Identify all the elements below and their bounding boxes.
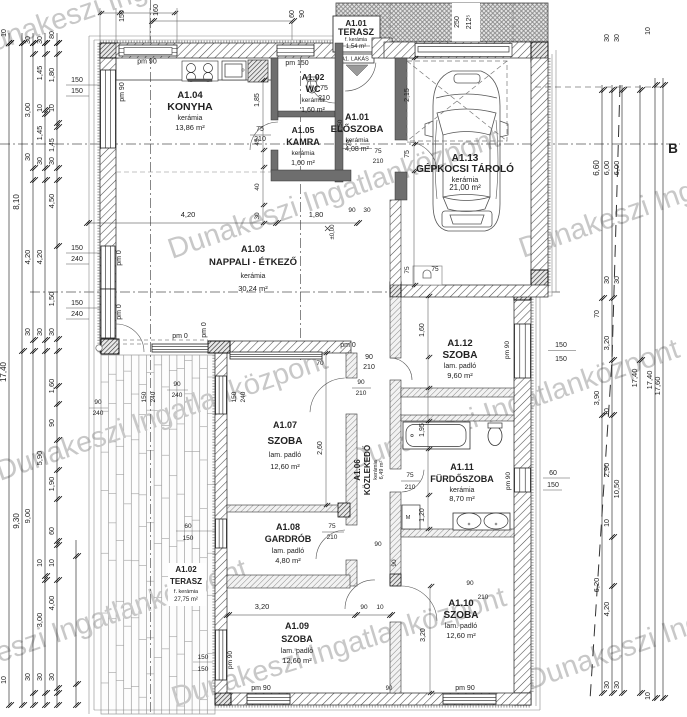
svg-text:210: 210 [373,158,384,165]
svg-text:90: 90 [365,354,373,361]
svg-text:30: 30 [49,328,56,336]
svg-text:A1.05: A1.05 [292,125,315,135]
svg-text:90: 90 [386,686,393,692]
svg-text:A1. LAKÁS: A1. LAKÁS [341,56,369,63]
svg-text:10: 10 [604,408,611,416]
svg-text:4,20: 4,20 [602,602,611,617]
svg-text:12,60 m²: 12,60 m² [446,631,476,640]
svg-text:f. kerámia: f. kerámia [345,37,367,43]
svg-text:SZOBA: SZOBA [443,350,478,361]
svg-text:10: 10 [49,559,56,567]
svg-text:30: 30 [37,328,44,336]
svg-text:pm 0: pm 0 [340,342,356,349]
svg-text:90: 90 [173,381,181,388]
svg-text:kerámia: kerámia [450,487,475,494]
svg-text:WC: WC [306,84,321,94]
svg-text:1,80: 1,80 [47,68,56,83]
svg-text:10: 10 [1,29,8,37]
svg-text:1,60: 1,60 [419,323,426,337]
svg-text:4,20: 4,20 [181,210,196,219]
svg-text:kerámia: kerámia [178,115,203,122]
svg-text:9,30: 9,30 [12,513,21,529]
svg-text:10,50: 10,50 [612,480,621,499]
svg-text:150: 150 [183,535,194,542]
svg-text:2,60: 2,60 [317,441,324,455]
svg-text:75: 75 [320,85,328,92]
svg-text:A1.09: A1.09 [285,621,309,631]
svg-text:210: 210 [327,534,338,541]
svg-text:150: 150 [231,391,238,402]
svg-text:90: 90 [374,541,382,548]
svg-text:150: 150 [198,654,209,661]
svg-text:3,20: 3,20 [255,602,270,611]
svg-text:1,85: 1,85 [254,93,261,107]
svg-text:pm 90: pm 90 [251,685,271,692]
svg-text:9,60 m²: 9,60 m² [447,371,473,380]
svg-text:KAMRA: KAMRA [286,137,320,147]
svg-text:1,60 m²: 1,60 m² [301,107,325,114]
svg-text:A1.02: A1.02 [302,72,325,82]
svg-text:10: 10 [376,604,384,611]
svg-text:3,00: 3,00 [35,613,44,628]
svg-text:kerámia: kerámia [241,273,266,280]
svg-text:75: 75 [404,150,411,158]
svg-text:17,40: 17,40 [630,369,639,388]
svg-text:M: M [406,515,411,521]
svg-text:150: 150 [71,88,83,95]
svg-text:13,86 m²: 13,86 m² [175,123,205,132]
svg-text:4,80 m²: 4,80 m² [275,556,301,565]
svg-text:8,70 m²: 8,70 m² [449,494,475,503]
svg-text:90: 90 [348,207,356,214]
svg-text:240: 240 [71,256,83,263]
svg-text:150: 150 [71,245,83,252]
svg-text:KÖZLEKEDŐ: KÖZLEKEDŐ [363,445,372,495]
svg-text:212⁵: 212⁵ [466,15,473,30]
svg-text:A1.01: A1.01 [345,112,369,122]
svg-text:kerámia: kerámia [291,150,315,157]
svg-text:A1.02: A1.02 [175,565,197,574]
svg-text:150: 150 [141,391,148,402]
svg-text:A1.04: A1.04 [177,90,203,101]
svg-text:TERASZ: TERASZ [170,577,202,586]
svg-text:27,75 m²: 27,75 m² [174,597,198,603]
svg-text:90: 90 [466,580,474,587]
svg-text:f. kerámia: f. kerámia [174,589,199,595]
svg-text:30: 30 [25,153,32,161]
svg-text:1,90: 1,90 [47,477,56,492]
svg-text:B: B [668,141,678,156]
svg-text:FÜRDŐSZOBA: FÜRDŐSZOBA [430,473,494,484]
svg-text:90: 90 [94,399,102,406]
svg-text:10: 10 [645,27,652,35]
svg-text:KONYHA: KONYHA [167,101,213,113]
svg-text:4,20: 4,20 [35,250,44,265]
svg-text:90: 90 [360,604,368,611]
svg-text:1,80: 1,80 [309,210,324,219]
svg-text:10: 10 [604,519,611,527]
svg-text:30: 30 [25,36,32,44]
svg-text:4,00: 4,00 [47,596,56,611]
svg-text:150: 150 [547,482,559,489]
svg-text:lam. padló: lam. padló [269,452,301,459]
svg-text:10: 10 [37,104,44,112]
svg-text:60: 60 [184,523,192,530]
svg-text:30: 30 [254,212,261,220]
svg-text:30: 30 [37,673,44,681]
svg-text:1,50: 1,50 [337,119,344,132]
svg-text:75: 75 [406,472,414,479]
svg-text:1,20: 1,20 [419,508,426,522]
svg-text:lam. padló: lam. padló [444,363,476,370]
svg-text:2,15: 2,15 [404,88,411,102]
svg-text:150: 150 [119,10,126,22]
svg-text:90: 90 [299,10,306,18]
svg-text:pm 90: pm 90 [137,59,157,66]
svg-text:A1.12: A1.12 [447,338,472,349]
svg-text:1,60: 1,60 [47,379,56,394]
svg-text:1,54 m²: 1,54 m² [346,44,366,50]
svg-text:75: 75 [346,139,353,147]
svg-text:5,90: 5,90 [35,451,44,466]
svg-text:±0,00: ±0,00 [330,224,336,240]
svg-text:240: 240 [172,392,183,399]
svg-text:90: 90 [49,419,56,427]
svg-text:40: 40 [254,183,261,191]
svg-text:A1.03: A1.03 [241,244,265,254]
svg-text:30: 30 [604,276,611,284]
svg-text:17,40: 17,40 [0,361,8,382]
svg-text:75: 75 [404,266,411,274]
svg-text:SZOBA: SZOBA [281,634,313,644]
svg-text:60: 60 [49,527,56,535]
svg-text:10: 10 [49,104,56,112]
svg-text:A1.13: A1.13 [452,153,479,164]
svg-text:240: 240 [240,391,247,402]
svg-text:1,60 m²: 1,60 m² [291,160,315,167]
svg-text:lam. padló: lam. padló [445,623,477,630]
svg-text:150: 150 [555,342,567,349]
svg-text:30: 30 [25,328,32,336]
svg-text:250: 250 [454,16,461,28]
svg-text:3,00: 3,00 [23,103,32,118]
svg-text:12,60 m²: 12,60 m² [282,656,312,665]
svg-text:A1.11: A1.11 [450,462,474,472]
svg-text:75: 75 [256,126,264,133]
svg-text:NAPPALI - ÉTKEZŐ: NAPPALI - ÉTKEZŐ [209,256,297,268]
svg-text:30: 30 [614,276,621,284]
svg-text:pm 150: pm 150 [285,60,308,67]
svg-text:80: 80 [49,31,56,39]
svg-text:240: 240 [150,391,157,402]
svg-text:pm 0: pm 0 [116,304,123,320]
svg-text:30: 30 [37,157,44,165]
svg-text:30: 30 [604,34,611,42]
svg-text:A1.10: A1.10 [448,598,473,609]
svg-text:4,50: 4,50 [47,194,56,209]
svg-text:A1.08: A1.08 [276,522,300,532]
svg-text:1,45: 1,45 [49,138,56,152]
svg-text:210: 210 [318,95,330,102]
svg-text:TERASZ: TERASZ [338,27,375,37]
svg-text:30: 30 [363,207,371,214]
svg-text:3,20: 3,20 [420,628,427,642]
svg-text:pm 0: pm 0 [116,250,123,266]
svg-text:lam. padló: lam. padló [281,648,313,655]
svg-text:6,20: 6,20 [592,578,601,593]
svg-text:10: 10 [1,676,8,684]
svg-text:90: 90 [391,559,398,567]
svg-text:pm 90: pm 90 [455,685,475,692]
svg-text:75: 75 [328,523,336,530]
svg-text:60: 60 [289,10,296,18]
svg-text:210: 210 [478,594,489,601]
svg-text:pm 90: pm 90 [505,472,512,490]
svg-text:1,95: 1,95 [419,423,426,437]
svg-text:75: 75 [374,148,382,155]
svg-text:6,49 m²: 6,49 m² [379,461,385,480]
svg-text:pm 90: pm 90 [504,341,511,359]
svg-text:30: 30 [49,157,56,165]
svg-text:240: 240 [71,311,83,318]
svg-text:pm 90: pm 90 [227,651,234,669]
svg-text:3,90: 3,90 [592,391,601,406]
svg-text:A1.07: A1.07 [273,420,297,430]
svg-text:30,24 m²: 30,24 m² [238,284,268,293]
svg-text:pm 0: pm 0 [172,333,188,340]
svg-text:GÉPKOCSI TÁROLÓ: GÉPKOCSI TÁROLÓ [416,162,514,175]
svg-text:210: 210 [363,364,375,371]
svg-text:210: 210 [405,484,416,491]
svg-text:2,90: 2,90 [602,463,611,478]
svg-text:4,20: 4,20 [23,250,32,265]
svg-text:30: 30 [25,673,32,681]
svg-text:30: 30 [614,34,621,42]
svg-text:1,45: 1,45 [35,126,44,141]
svg-text:210: 210 [254,136,266,143]
svg-text:21,00 m²: 21,00 m² [449,183,481,192]
svg-text:17,60: 17,60 [653,377,662,396]
svg-text:10: 10 [645,692,652,700]
svg-text:150: 150 [198,666,209,673]
svg-text:150: 150 [71,77,83,84]
svg-text:160: 160 [153,4,160,16]
svg-text:70: 70 [594,310,601,318]
svg-text:6,00: 6,00 [602,161,611,176]
svg-text:pm 0: pm 0 [201,322,208,338]
svg-text:60: 60 [549,470,557,477]
svg-text:6,60: 6,60 [592,160,601,176]
svg-text:lam. padló: lam. padló [272,548,304,555]
svg-text:75: 75 [431,266,439,273]
svg-text:SZOBA: SZOBA [444,610,479,621]
svg-text:150: 150 [71,300,83,307]
svg-text:1,45: 1,45 [35,66,44,81]
svg-text:1,50: 1,50 [47,292,56,307]
svg-text:GARDRÓB: GARDRÓB [265,533,312,544]
svg-text:8,10: 8,10 [12,194,21,210]
svg-text:30: 30 [37,36,44,44]
svg-text:150: 150 [555,356,567,363]
svg-text:pm 90: pm 90 [119,82,126,102]
svg-text:30: 30 [604,681,611,689]
svg-text:9,00: 9,00 [23,509,32,524]
svg-text:10: 10 [37,559,44,567]
svg-text:A1.06: A1.06 [353,459,362,481]
svg-text:12,60 m²: 12,60 m² [270,462,300,471]
svg-text:70: 70 [316,360,324,367]
svg-text:30: 30 [49,673,56,681]
svg-text:3,20: 3,20 [602,336,611,351]
svg-text:240: 240 [93,410,104,417]
svg-text:30: 30 [614,681,621,689]
svg-text:210: 210 [356,390,367,397]
svg-text:90: 90 [357,379,365,386]
svg-text:SZOBA: SZOBA [268,436,303,447]
svg-text:6,00: 6,00 [612,161,621,176]
